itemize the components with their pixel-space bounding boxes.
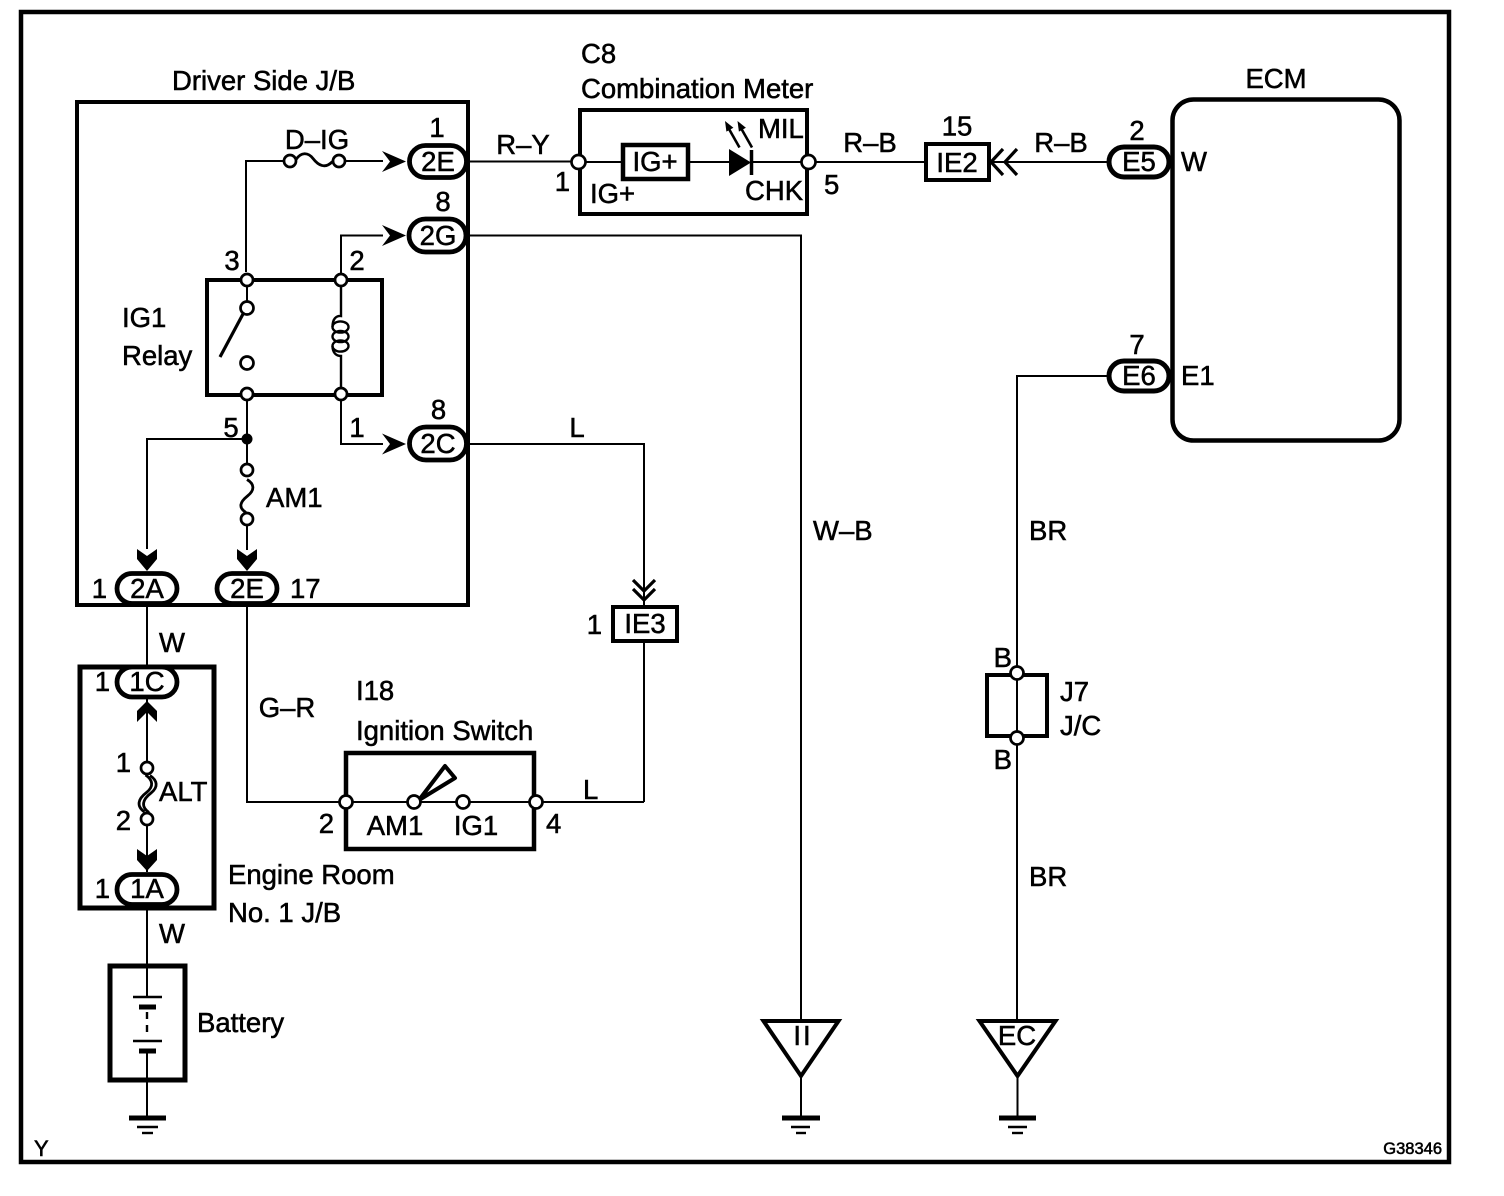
- ground triangle EC: [980, 1021, 1056, 1076]
- svg-text:15: 15: [942, 111, 973, 142]
- connector IE2: [926, 144, 989, 180]
- svg-text:AM1: AM1: [266, 482, 323, 513]
- meter node 5: [802, 155, 816, 169]
- svg-text:BR: BR: [1029, 861, 1067, 892]
- svg-text:II: II: [793, 1020, 812, 1051]
- svg-text:1: 1: [555, 166, 570, 197]
- svg-text:C8: C8: [581, 38, 616, 69]
- svg-text:8: 8: [431, 394, 446, 425]
- svg-text:R–B: R–B: [843, 127, 897, 158]
- switch internal wire: [346, 801, 536, 803]
- svg-text:Engine Room: Engine Room: [228, 859, 395, 890]
- svg-text:J7: J7: [1060, 676, 1089, 707]
- arrow into 2E: [382, 151, 406, 172]
- fuse D-IG: [284, 155, 296, 167]
- svg-text:17: 17: [290, 573, 321, 604]
- arrow up below 1C: [137, 701, 157, 722]
- svg-text:4: 4: [546, 808, 561, 839]
- junction node: [242, 434, 253, 445]
- switch lever: [419, 766, 455, 800]
- battery box: [110, 966, 185, 1080]
- ground triangle II: [764, 1021, 839, 1076]
- wire battery to ground: [146, 1053, 148, 1118]
- svg-text:5: 5: [824, 169, 839, 200]
- svg-text:R–Y: R–Y: [496, 129, 550, 160]
- svg-text:MIL: MIL: [758, 113, 804, 144]
- junction connector J7 J/C: [987, 675, 1047, 736]
- relay pin circles: [241, 274, 253, 286]
- wire: fuse to 2E arrow: [345, 160, 383, 162]
- wire 2C right then down: [467, 444, 644, 605]
- arrow into 2G: [382, 225, 406, 246]
- wire fuse to 2E arrow: [246, 525, 248, 550]
- fuse AM1: [241, 464, 253, 476]
- svg-text:B: B: [994, 642, 1012, 673]
- MIL lamp LED: [729, 149, 751, 176]
- svg-text:2: 2: [349, 245, 364, 276]
- svg-text:E5: E5: [1122, 146, 1156, 177]
- junction block: Driver Side J/B box: [77, 102, 468, 605]
- IG+ box: [623, 145, 688, 179]
- svg-text:2: 2: [1129, 115, 1144, 146]
- svg-text:1: 1: [95, 666, 110, 697]
- svg-text:ALT: ALT: [159, 776, 208, 807]
- svg-text:2C: 2C: [420, 428, 455, 459]
- meter internal wires: [586, 161, 623, 163]
- ground symbol (battery): [129, 1116, 166, 1121]
- arrow into 2C: [382, 434, 406, 455]
- svg-text:IG1: IG1: [454, 810, 498, 841]
- svg-text:W–B: W–B: [813, 515, 873, 546]
- svg-text:G–R: G–R: [259, 692, 316, 723]
- connector E6: [1109, 361, 1169, 391]
- svg-text:IE3: IE3: [624, 608, 665, 639]
- relay switch arm: [220, 314, 243, 357]
- wire pin1 down to 2C arrow: [341, 400, 383, 444]
- arrow down above 1A: [137, 849, 157, 871]
- wire: relay pin3 up to D-IG fuse: [246, 161, 284, 272]
- wire junction left to 2A drop: [147, 439, 247, 549]
- wire 2A to 1C: [146, 605, 148, 665]
- chevrons into IE3: [633, 580, 655, 600]
- svg-text:Battery: Battery: [197, 1007, 284, 1038]
- svg-text:W: W: [1181, 146, 1207, 177]
- svg-text:3: 3: [224, 245, 239, 276]
- wire 1C to ALT fuse: [146, 699, 148, 762]
- wire junction down to AM1 fuse: [246, 439, 248, 464]
- svg-text:B: B: [994, 744, 1012, 775]
- svg-text:8: 8: [435, 186, 450, 217]
- ignition switch box: [346, 753, 534, 849]
- svg-text:IG+: IG+: [590, 178, 635, 209]
- svg-text:Combination Meter: Combination Meter: [581, 73, 813, 104]
- svg-text:1C: 1C: [129, 666, 164, 697]
- svg-text:E6: E6: [1122, 360, 1156, 391]
- wire switch to IE3 riser: [542, 801, 644, 803]
- junction block: Engine Room No.1 J/B: [80, 667, 214, 908]
- svg-text:I18: I18: [356, 675, 394, 706]
- svg-text:2G: 2G: [420, 220, 457, 251]
- svg-text:2E: 2E: [421, 146, 455, 177]
- wire pin3 to switch contact: [246, 286, 248, 303]
- wire: coil top to 2G arrow: [341, 236, 383, 275]
- svg-text:1: 1: [95, 873, 110, 904]
- svg-text:BR: BR: [1029, 515, 1067, 546]
- svg-text:ECM: ECM: [1245, 63, 1306, 94]
- connector IE3: [613, 607, 677, 641]
- svg-text:CHK: CHK: [745, 175, 804, 206]
- svg-text:G38346: G38346: [1383, 1140, 1442, 1158]
- svg-text:1: 1: [587, 609, 602, 640]
- svg-text:R–B: R–B: [1034, 127, 1088, 158]
- meter node 1: [572, 155, 586, 169]
- connector 2E (bottom): [217, 574, 277, 604]
- svg-text:2: 2: [116, 805, 131, 836]
- ECM box: [1173, 100, 1400, 441]
- svg-text:L: L: [569, 412, 584, 443]
- wire 2E bottom down and right to switch: [247, 605, 340, 802]
- wire E6 left and down: [1017, 376, 1109, 1019]
- LED emission arrows: [729, 129, 740, 148]
- ground symbol (EC): [999, 1116, 1036, 1121]
- ground symbol (II): [782, 1116, 820, 1121]
- connector E5: [1109, 147, 1169, 177]
- wire ALT to 1A: [146, 825, 148, 872]
- switch terminals: [340, 796, 353, 809]
- connector 2G: [409, 219, 466, 252]
- connector 2E (top): [410, 146, 467, 178]
- svg-text:D–IG: D–IG: [285, 124, 349, 155]
- svg-text:1: 1: [349, 412, 364, 443]
- connector 1A: [117, 875, 177, 905]
- svg-text:Relay: Relay: [122, 340, 193, 371]
- connector 2C: [410, 427, 467, 460]
- svg-text:1: 1: [429, 112, 444, 143]
- svg-text:IG+: IG+: [632, 146, 677, 177]
- svg-text:IE2: IE2: [936, 147, 977, 178]
- svg-text:1: 1: [116, 747, 131, 778]
- relay IG1 box: [207, 280, 382, 395]
- arrow into 2A: [137, 549, 157, 571]
- wire 2E to meter: [467, 161, 578, 163]
- wire pin5 down to junction: [246, 400, 248, 439]
- connector 2A: [117, 574, 177, 604]
- svg-text:E1: E1: [1181, 360, 1215, 391]
- wire IE3 down to switch wire: [643, 643, 645, 802]
- svg-text:EC: EC: [998, 1020, 1036, 1051]
- svg-text:W: W: [159, 627, 185, 658]
- connector 1C: [117, 667, 177, 697]
- svg-text:AM1: AM1: [367, 810, 424, 841]
- arrow into bottom 2E: [237, 549, 257, 571]
- svg-text:1: 1: [92, 573, 107, 604]
- svg-text:Y: Y: [34, 1136, 49, 1161]
- svg-text:2E: 2E: [230, 573, 264, 604]
- svg-text:1A: 1A: [130, 873, 164, 904]
- chevrons at IE2: [991, 149, 1017, 175]
- svg-text:2: 2: [319, 808, 334, 839]
- wire 1A to battery: [146, 907, 148, 997]
- wire 2G to II ground: [467, 236, 801, 1020]
- combination meter box: [580, 110, 807, 214]
- wire node5 to IE2: [815, 161, 926, 163]
- battery cell plates: [133, 996, 162, 998]
- svg-text:7: 7: [1129, 329, 1144, 360]
- relay coil: [333, 286, 342, 327]
- svg-text:J/C: J/C: [1060, 710, 1101, 741]
- svg-text:Driver Side J/B: Driver Side J/B: [172, 65, 355, 96]
- fuse ALT (double wave): [139, 775, 152, 812]
- svg-text:L: L: [583, 774, 598, 805]
- svg-text:W: W: [159, 918, 185, 949]
- svg-text:No. 1 J/B: No. 1 J/B: [228, 897, 341, 928]
- wire IE2 to E5: [991, 161, 1109, 163]
- svg-text:IG1: IG1: [122, 302, 166, 333]
- svg-text:2A: 2A: [130, 573, 164, 604]
- svg-text:Ignition Switch: Ignition Switch: [356, 715, 533, 746]
